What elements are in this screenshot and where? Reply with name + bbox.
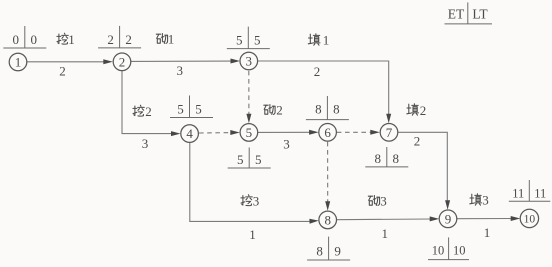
- svg-text:5: 5: [236, 33, 243, 48]
- label 砌2: [264, 103, 283, 118]
- wire: activity arrow 填2 (7→9, right then down): [398, 132, 450, 209]
- svg-text:2: 2: [276, 103, 283, 118]
- svg-text:2: 2: [420, 103, 427, 118]
- wire: dashed dummy arrow (4→5): [199, 130, 240, 135]
- svg-text:11: 11: [534, 186, 546, 200]
- wire: activity arrow 砌3 (8→9): [337, 216, 440, 221]
- svg-text:1: 1: [168, 32, 175, 47]
- svg-text:1: 1: [68, 32, 75, 47]
- svg-text:3: 3: [142, 136, 149, 151]
- svg-text:2: 2: [125, 32, 132, 47]
- label 填1: [308, 33, 329, 48]
- svg-text:5: 5: [254, 33, 261, 48]
- time label above node 4: 5|5: [170, 96, 213, 118]
- wire: activity arrow 挖2 (2→4, down then right): [122, 71, 181, 137]
- svg-text:2: 2: [145, 104, 152, 119]
- label 填2: [407, 103, 426, 118]
- svg-text:9: 9: [334, 244, 341, 259]
- label 挖1: [57, 32, 75, 47]
- svg-text:1: 1: [249, 227, 256, 242]
- node 9: [439, 210, 457, 228]
- svg-text:8: 8: [375, 151, 382, 166]
- node 6: [319, 124, 337, 142]
- svg-text:3: 3: [246, 54, 253, 69]
- time label above node 1: 0|0: [3, 26, 46, 48]
- svg-text:0: 0: [13, 32, 20, 47]
- wire: activity arrow 填1 (3→7, right then down): [258, 61, 392, 123]
- wire: dashed dummy arrow (6→7): [337, 130, 380, 135]
- svg-text:3: 3: [253, 194, 260, 209]
- node 7: [380, 124, 398, 142]
- time label below node 7: 8|8: [365, 147, 408, 167]
- label 挖2: [133, 104, 152, 119]
- svg-text:2: 2: [314, 64, 321, 79]
- svg-text:7: 7: [386, 125, 393, 140]
- wire: dashed dummy arrow (6→8): [325, 142, 330, 211]
- time label below node 9: 10|10: [428, 237, 469, 259]
- wire: activity arrow 挖1 (1→2): [27, 59, 113, 64]
- svg-text:6: 6: [324, 125, 331, 140]
- svg-text:3: 3: [482, 193, 489, 208]
- node 4: [181, 125, 199, 143]
- svg-text:8: 8: [316, 244, 323, 259]
- time label below node 8: 8|9: [307, 237, 350, 260]
- wire: activity arrow 填3 (9→10): [457, 216, 520, 221]
- label 砌1: [156, 32, 174, 47]
- time label above node 3: 5|5: [227, 27, 270, 49]
- svg-text:9: 9: [445, 211, 452, 226]
- svg-text:10: 10: [524, 214, 536, 226]
- time label below node 5: 5|5: [228, 148, 271, 169]
- time label above node 10: 11|11: [509, 180, 551, 201]
- svg-text:2: 2: [107, 32, 114, 47]
- label 挖3: [241, 194, 259, 209]
- svg-text:11: 11: [512, 186, 524, 200]
- svg-text:3: 3: [177, 63, 184, 78]
- time label above node 2: 2|2: [98, 26, 141, 48]
- svg-text:5: 5: [255, 152, 262, 167]
- svg-text:5: 5: [246, 125, 253, 140]
- node 5: [240, 124, 258, 142]
- svg-text:8: 8: [393, 151, 400, 166]
- wire: activity arrow 砌1 (2→3): [131, 59, 240, 64]
- svg-text:5: 5: [237, 152, 244, 167]
- svg-text:2: 2: [414, 134, 421, 149]
- label 填3: [470, 193, 489, 208]
- label 砌3: [368, 194, 386, 209]
- legend ET|LT: [445, 2, 493, 24]
- svg-text:1: 1: [323, 33, 330, 48]
- svg-text:2: 2: [59, 64, 66, 79]
- svg-text:5: 5: [177, 102, 184, 117]
- svg-text:5: 5: [195, 102, 202, 117]
- svg-text:0: 0: [31, 32, 38, 47]
- svg-text:8: 8: [333, 102, 340, 117]
- svg-text:1: 1: [382, 226, 389, 241]
- svg-text:3: 3: [380, 194, 387, 209]
- node 3: [240, 52, 258, 70]
- wire: dashed dummy arrow (3→5): [246, 71, 251, 123]
- svg-text:2: 2: [119, 54, 126, 69]
- svg-text:1: 1: [484, 225, 491, 240]
- wire: activity arrow 砌2 (5→6): [258, 130, 319, 135]
- time label above node 6: 8|8: [306, 96, 349, 120]
- svg-text:10: 10: [432, 244, 445, 258]
- svg-text:LT: LT: [472, 7, 488, 22]
- node 1: [9, 53, 27, 71]
- svg-text:10: 10: [453, 244, 466, 258]
- node 8: [319, 211, 337, 229]
- node 2: [113, 53, 131, 71]
- svg-text:4: 4: [186, 126, 193, 141]
- wire: activity arrow 挖3 (4→8, down then right): [190, 143, 319, 224]
- node 10: [520, 209, 538, 227]
- svg-text:8: 8: [324, 213, 331, 228]
- svg-text:8: 8: [315, 102, 322, 117]
- svg-text:3: 3: [283, 137, 290, 152]
- svg-text:1: 1: [15, 55, 22, 70]
- svg-text:ET: ET: [448, 7, 465, 22]
